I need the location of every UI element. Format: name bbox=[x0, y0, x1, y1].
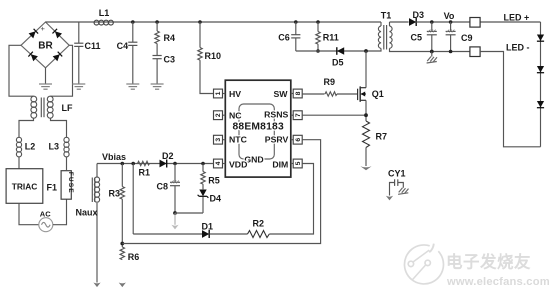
U1 pin 5 box bbox=[291, 159, 302, 168]
triac TRIAC bbox=[6, 169, 43, 204]
LED 1 bbox=[537, 35, 544, 42]
svg-text:DIM: DIM bbox=[272, 160, 288, 170]
U1 pin 8 box bbox=[291, 89, 302, 98]
svg-text:R3: R3 bbox=[109, 189, 121, 199]
ground arrow (R7) bbox=[360, 166, 371, 170]
svg-text:R1: R1 bbox=[139, 168, 151, 178]
svg-text:L3: L3 bbox=[49, 142, 60, 152]
wire source down bbox=[365, 100, 367, 121]
ground (BR) bbox=[39, 84, 52, 89]
wire LF right to L3 bbox=[51, 118, 67, 137]
svg-text:D1: D1 bbox=[202, 222, 214, 232]
capacitor C9 bbox=[446, 22, 473, 53]
fuse F1 bbox=[47, 171, 74, 200]
wire LF left to L2 bbox=[19, 118, 34, 137]
inductor L2 bbox=[16, 137, 35, 157]
node C6 junction bbox=[294, 20, 298, 24]
earth ground (C5) bbox=[427, 52, 437, 64]
resistor R10 bbox=[198, 22, 221, 61]
wire L2 to TRIAC bbox=[18, 157, 20, 169]
ground (C11) bbox=[72, 84, 85, 89]
svg-text:RSNS: RSNS bbox=[264, 109, 288, 119]
svg-text:R5: R5 bbox=[208, 176, 220, 186]
wire C8 to D4 bottom bbox=[175, 212, 203, 214]
inductor LF (common-mode choke) bbox=[31, 96, 73, 118]
resistor R4 bbox=[155, 22, 175, 44]
svg-text:R4: R4 bbox=[164, 33, 176, 43]
capacitor C11 bbox=[74, 22, 100, 84]
svg-text:C11: C11 bbox=[85, 41, 101, 51]
svg-text:PSRV: PSRV bbox=[265, 135, 289, 145]
svg-text:www.elecfans.com: www.elecfans.com bbox=[446, 276, 550, 288]
wire RSNS to source node bbox=[302, 114, 366, 116]
svg-text:AC: AC bbox=[40, 210, 51, 219]
capacitor C4 bbox=[117, 22, 138, 84]
svg-text:CY1: CY1 bbox=[388, 169, 406, 179]
node source junction bbox=[364, 113, 368, 117]
svg-text:R6: R6 bbox=[128, 252, 140, 262]
svg-text:6: 6 bbox=[295, 138, 302, 142]
svg-text:3: 3 bbox=[215, 138, 222, 142]
capacitor C6 bbox=[278, 22, 300, 51]
svg-text:C4: C4 bbox=[117, 41, 129, 51]
svg-text:8: 8 bbox=[295, 91, 302, 95]
node C4 junction bbox=[131, 20, 135, 24]
node R11 top junction bbox=[316, 20, 320, 24]
svg-text:D4: D4 bbox=[210, 194, 222, 204]
capacitor C3 bbox=[153, 44, 176, 84]
ground arrow (CY1) bbox=[386, 196, 393, 201]
zener diode D4 bbox=[198, 190, 221, 214]
wire fuse to L3 bbox=[66, 157, 68, 171]
resistor R11 bbox=[316, 22, 339, 51]
ground arrow (C8) bbox=[171, 225, 178, 230]
wire inner loop bottom left bbox=[133, 233, 202, 235]
svg-text:C5: C5 bbox=[411, 33, 423, 43]
node C5 bottom bbox=[430, 50, 434, 54]
wire BR right vertex down to LF bbox=[51, 45, 73, 96]
U1 pin 1 box bbox=[214, 89, 226, 98]
wire top rail bbox=[46, 21, 382, 23]
svg-text:NTC: NTC bbox=[229, 135, 248, 145]
svg-text:L2: L2 bbox=[25, 142, 36, 152]
svg-text:D5: D5 bbox=[332, 58, 344, 68]
svg-text:C6: C6 bbox=[278, 32, 290, 42]
wire BR left vertex down to LF bbox=[9, 45, 34, 96]
svg-text:R2: R2 bbox=[253, 219, 265, 229]
watermark logo circle bbox=[404, 244, 443, 284]
wire PSRV outer loop bbox=[122, 140, 320, 244]
wire C8 ground stub bbox=[174, 213, 176, 225]
svg-text:7: 7 bbox=[295, 113, 302, 117]
ground arrow (Naux) bbox=[93, 283, 100, 288]
wire inner loop left bbox=[132, 164, 134, 235]
wire AC source to fuse F1 bbox=[53, 199, 67, 225]
svg-text:LED -: LED - bbox=[506, 43, 530, 53]
winding Naux bbox=[76, 164, 100, 283]
connector LED+ terminal bbox=[470, 18, 480, 28]
node R11 bottom junction bbox=[316, 49, 320, 53]
svg-text:4: 4 bbox=[215, 161, 222, 165]
svg-text:L1: L1 bbox=[99, 8, 110, 18]
node R3 top junction bbox=[121, 162, 125, 166]
diode D2 bbox=[160, 151, 174, 168]
wire R10 to pin HV bbox=[200, 60, 214, 93]
svg-text:HV: HV bbox=[229, 89, 241, 99]
resistor R1 bbox=[138, 161, 151, 177]
wire Vbias rail bbox=[97, 163, 214, 165]
svg-text:LF: LF bbox=[62, 103, 73, 113]
U1 pin 7 box bbox=[291, 111, 302, 120]
svg-text:F1: F1 bbox=[47, 183, 58, 193]
inductor L3 bbox=[49, 137, 70, 157]
svg-text:C3: C3 bbox=[164, 55, 176, 65]
svg-text:FUSE: FUSE bbox=[67, 172, 74, 194]
resistor R9 bbox=[324, 77, 358, 96]
diode D3 bbox=[409, 10, 541, 26]
LED 3 bbox=[537, 101, 544, 108]
resistor R3 bbox=[109, 164, 125, 248]
op-amp U1 88EM8183 body bbox=[225, 80, 290, 177]
svg-text:电子发烧友: 电子发烧友 bbox=[446, 252, 531, 272]
wire secondary rail bbox=[390, 21, 409, 23]
svg-text:Q1: Q1 bbox=[372, 89, 384, 99]
transistor Q1 bbox=[358, 86, 384, 101]
node Vo junction bbox=[444, 11, 455, 24]
U1 pin 3 box bbox=[214, 135, 226, 144]
svg-text:2: 2 bbox=[215, 113, 222, 117]
svg-text:LED +: LED + bbox=[504, 13, 530, 23]
wire LED string bbox=[540, 22, 542, 147]
diode D1 bbox=[202, 222, 214, 239]
node R5 top junction bbox=[201, 162, 205, 166]
transformer T1 bbox=[378, 10, 392, 49]
node R4 junction bbox=[155, 20, 159, 24]
ground arrow (R6) bbox=[119, 283, 126, 288]
wire TRIAC to AC source bbox=[19, 203, 39, 224]
wire snubber line bbox=[296, 50, 366, 52]
connector LED- terminal bbox=[470, 47, 480, 57]
capacitor CY1 bbox=[388, 169, 408, 196]
svg-text:D3: D3 bbox=[413, 10, 425, 20]
svg-text:R10: R10 bbox=[205, 51, 222, 61]
U1 pin 2 box bbox=[214, 111, 226, 120]
diode D5 bbox=[332, 47, 344, 67]
svg-text:Naux: Naux bbox=[76, 208, 98, 218]
wire LED- return bbox=[480, 52, 540, 147]
svg-text:TRIAC: TRIAC bbox=[12, 182, 38, 192]
svg-text:C9: C9 bbox=[461, 33, 473, 43]
svg-text:T1: T1 bbox=[381, 10, 392, 20]
svg-text:R7: R7 bbox=[376, 132, 388, 142]
svg-text:+: + bbox=[41, 24, 46, 33]
svg-text:NC: NC bbox=[229, 110, 242, 120]
U1 pin 4 box bbox=[214, 159, 226, 168]
resistor R5 bbox=[201, 164, 220, 190]
wire SW to gate bbox=[302, 93, 324, 95]
LED 2 bbox=[537, 66, 544, 73]
wire T1 primary bottom to drain node bbox=[366, 48, 381, 51]
node drain junction bbox=[364, 49, 368, 53]
bridge rectifier BR bbox=[21, 22, 69, 68]
wire BR bottom to ground bbox=[45, 68, 47, 84]
resistor R2 bbox=[248, 219, 270, 238]
wire drain up bbox=[365, 51, 367, 88]
wire D1 to R2 bbox=[210, 233, 248, 235]
svg-text:SW: SW bbox=[274, 89, 289, 99]
svg-text:R9: R9 bbox=[324, 77, 336, 87]
svg-text:88EM8183: 88EM8183 bbox=[232, 122, 283, 133]
inductor L1 bbox=[94, 8, 113, 25]
wire secondary bottom line bbox=[390, 48, 471, 51]
svg-text:R11: R11 bbox=[323, 32, 339, 42]
svg-text:Vbias: Vbias bbox=[102, 152, 126, 162]
U1 pin 6 box bbox=[291, 135, 302, 144]
capacitor C8 bbox=[157, 164, 181, 214]
svg-text:Vo: Vo bbox=[444, 11, 455, 21]
ground (C4) bbox=[126, 84, 139, 89]
svg-text:5: 5 bbox=[295, 161, 302, 165]
node C8 top junction bbox=[173, 162, 177, 166]
svg-text:BR: BR bbox=[38, 41, 53, 52]
node C8 bottom junction bbox=[173, 211, 177, 215]
capacitor C5 bbox=[411, 22, 437, 52]
node inner-loop left junction bbox=[131, 162, 135, 166]
resistor R7 bbox=[363, 121, 388, 166]
svg-text:1: 1 bbox=[215, 91, 222, 95]
node R10 junction bbox=[198, 20, 202, 24]
AC source bbox=[39, 210, 53, 232]
ground (C3) bbox=[151, 84, 164, 89]
resistor R6 bbox=[120, 247, 139, 262]
svg-text:VDD: VDD bbox=[229, 160, 247, 170]
wire R2 to DIM pin bbox=[269, 164, 313, 235]
node R6 junction bbox=[120, 242, 124, 246]
svg-text:D2: D2 bbox=[162, 151, 174, 161]
node C5 top bbox=[430, 20, 434, 24]
svg-text:C8: C8 bbox=[157, 182, 169, 192]
